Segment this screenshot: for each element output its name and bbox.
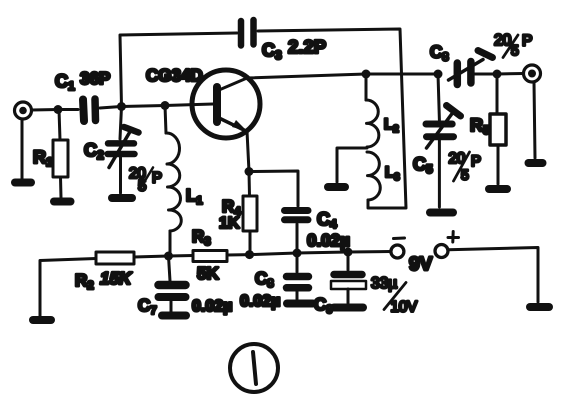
inductor L3 bbox=[367, 152, 380, 200]
svg-text:C8: C8 bbox=[430, 43, 449, 64]
svg-text:C7: C7 bbox=[138, 296, 157, 317]
ground R1 bbox=[54, 198, 71, 206]
svg-text:9V: 9V bbox=[409, 254, 433, 275]
svg-text:C9: C9 bbox=[314, 295, 333, 316]
ground input bbox=[15, 179, 31, 187]
inductor L1 bbox=[165, 106, 181, 256]
wire C1 to node B bbox=[100, 107, 121, 109]
svg-text:R2: R2 bbox=[75, 271, 94, 292]
svg-text:C1: C1 bbox=[55, 71, 75, 93]
wire node K to output terminal bbox=[497, 72, 523, 76]
output terminal J2 bbox=[524, 65, 541, 82]
wire node F to node G bbox=[250, 253, 298, 255]
wire output terminal down bbox=[534, 82, 535, 158]
node K bbox=[493, 70, 502, 79]
wire plus terminal to bottom right ground bbox=[448, 248, 538, 303]
variable capacitor C8 top bbox=[449, 51, 493, 85]
capacitor C8 bottom bbox=[287, 253, 309, 299]
svg-text:0.02µ: 0.02µ bbox=[307, 231, 350, 250]
svg-text:L2: L2 bbox=[384, 116, 399, 135]
wire input to R1 node bbox=[32, 108, 59, 112]
node G bbox=[293, 249, 302, 258]
label 20/5P top right bbox=[494, 32, 532, 58]
resistor R1 bbox=[53, 110, 68, 199]
ground C2 bbox=[112, 194, 132, 202]
battery terminal plus bbox=[435, 232, 459, 258]
node E bbox=[164, 252, 173, 261]
wire node B up and top wire to C3 bbox=[120, 33, 237, 107]
label 33u/10V bbox=[371, 275, 417, 316]
node C bbox=[161, 101, 170, 110]
capacitor C1 bbox=[83, 99, 96, 121]
svg-text:C4: C4 bbox=[317, 209, 337, 231]
svg-text:C3: C3 bbox=[262, 40, 282, 62]
wire C3 right to corner, down right side, to L3 bottom bbox=[258, 29, 406, 208]
variable capacitor C2 bbox=[108, 107, 139, 194]
svg-text:R3: R3 bbox=[192, 227, 211, 248]
svg-text:P: P bbox=[152, 170, 162, 187]
ground C7 bbox=[162, 312, 186, 320]
ground C8 bbox=[287, 300, 313, 308]
label 20/5P of C5 bbox=[449, 150, 482, 183]
node I L2 tap bbox=[362, 70, 371, 79]
svg-text:0.02µ: 0.02µ bbox=[240, 293, 280, 310]
battery terminal minus bbox=[391, 238, 405, 258]
svg-text:15K: 15K bbox=[100, 269, 133, 288]
resistor R3 bbox=[169, 251, 250, 262]
svg-text:L1: L1 bbox=[186, 186, 203, 207]
svg-text:36P: 36P bbox=[80, 69, 110, 88]
svg-text:5K: 5K bbox=[197, 264, 219, 283]
svg-text:R1: R1 bbox=[33, 147, 53, 169]
svg-text:2.2P: 2.2P bbox=[288, 36, 326, 57]
svg-text:1K: 1K bbox=[219, 215, 240, 232]
capacitor C9 electrolytic bbox=[331, 252, 366, 303]
ground bottom left bbox=[33, 316, 51, 324]
wire bias rail left end bbox=[40, 259, 96, 317]
capacitor C3 bbox=[241, 20, 254, 46]
svg-text:R5: R5 bbox=[470, 115, 490, 137]
node B bbox=[117, 102, 126, 111]
ground output bbox=[529, 159, 543, 167]
figure number 1 bbox=[230, 344, 278, 392]
node A bbox=[54, 105, 63, 114]
ground C5 bbox=[430, 209, 453, 217]
wire emitter node to C4 bbox=[249, 171, 298, 206]
svg-text:C2: C2 bbox=[84, 140, 104, 162]
wire collector to right bbox=[247, 74, 438, 78]
input terminal J1 bbox=[15, 102, 32, 119]
svg-text:P: P bbox=[522, 33, 532, 50]
svg-text:C5: C5 bbox=[413, 154, 433, 176]
transistor Q1 CG34D bbox=[192, 70, 260, 138]
node J C5 bbox=[434, 70, 443, 79]
svg-text:10V: 10V bbox=[391, 299, 418, 316]
svg-text:33µ: 33µ bbox=[371, 275, 397, 292]
capacitor C4 bbox=[285, 211, 309, 253]
wire input terminal down bbox=[21, 119, 24, 179]
wire node B to L1 node bbox=[122, 106, 166, 107]
node H bbox=[344, 248, 353, 257]
ground C9 bbox=[334, 304, 363, 312]
label 20/5P of C2 bbox=[129, 165, 162, 195]
variable capacitor C5 bbox=[426, 74, 461, 207]
ground bottom right bbox=[530, 303, 549, 311]
svg-text:0.02µ: 0.02µ bbox=[192, 298, 232, 315]
capacitor C7 bbox=[159, 256, 186, 312]
wire node H to minus terminal bbox=[348, 250, 391, 254]
wire emitter down bbox=[247, 131, 249, 172]
svg-text:5: 5 bbox=[461, 167, 469, 183]
wire node G to node H bbox=[297, 252, 348, 253]
svg-text:P: P bbox=[471, 153, 481, 170]
ground L tap bbox=[328, 183, 345, 191]
wire base bbox=[165, 104, 213, 106]
svg-text:L3: L3 bbox=[385, 164, 400, 183]
wire R2 to node E bbox=[134, 256, 169, 257]
svg-text:C8: C8 bbox=[255, 269, 274, 290]
node F bbox=[245, 250, 254, 259]
resistor R5 bbox=[490, 74, 506, 184]
inductor L2 bbox=[366, 74, 379, 147]
node D bbox=[245, 167, 254, 176]
resistor R2 bbox=[96, 252, 134, 264]
ground R5 bbox=[489, 185, 507, 193]
svg-text:CG34D: CG34D bbox=[146, 66, 203, 85]
wire node to C1 bbox=[58, 108, 78, 111]
wire L2 L3 tap to ground bbox=[337, 148, 367, 182]
wire C8 right to node K bbox=[474, 73, 497, 76]
resistor R4 bbox=[243, 172, 257, 255]
